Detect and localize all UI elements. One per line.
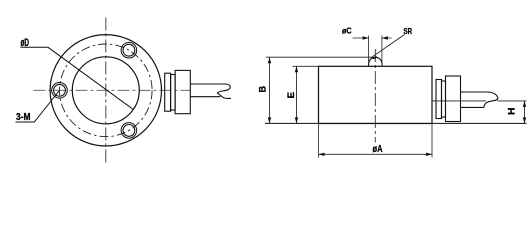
vertical centerline right view <box>374 49 376 143</box>
connector axis extension line right view <box>432 100 527 102</box>
dimension H line <box>524 101 526 124</box>
dimension E extension top <box>293 65 319 67</box>
connector body left view <box>175 70 190 113</box>
cable bottom line right view <box>461 106 484 108</box>
cylinder body rectangle <box>319 66 433 123</box>
cable left view with break <box>190 84 231 98</box>
bolt hole bottom <box>121 123 137 139</box>
bolt hole top-right <box>121 42 137 58</box>
horizontal centerline left view <box>34 89 191 91</box>
vertical centerline left view <box>105 18 107 165</box>
boss dome (SR) <box>369 57 382 66</box>
outer circle flange <box>50 35 161 146</box>
øA extension lines <box>319 124 433 158</box>
SR leader with arrow <box>372 35 405 58</box>
øA dimension line with arrows <box>319 153 433 155</box>
label 3-M leader <box>16 91 60 122</box>
connector ring1 right view <box>436 80 442 119</box>
bottom long line (cylinder bottom + extensions) <box>265 122 527 124</box>
svg-text:3-M: 3-M <box>16 112 31 123</box>
bolt hole left <box>52 83 68 99</box>
svg-text:B: B <box>258 86 268 93</box>
svg-text:E: E <box>286 92 296 99</box>
connector body right view <box>446 76 461 122</box>
connector ring1 left view <box>165 73 171 111</box>
svg-text:øA: øA <box>373 144 383 155</box>
bolt circle (dash-dot) <box>60 44 153 137</box>
svg-text:SR: SR <box>404 26 413 36</box>
svg-text:øC: øC <box>342 26 352 36</box>
connector ring2 right view <box>442 81 446 117</box>
inner circle <box>72 57 139 124</box>
øC extension lines <box>369 36 382 66</box>
cable bottom line left view <box>190 96 221 98</box>
dimension B extension top <box>266 56 372 58</box>
cable right view with curl break <box>461 92 498 107</box>
dimension B line <box>269 57 271 123</box>
connector ring2 left view <box>171 75 176 111</box>
svg-text:øD: øD <box>21 37 30 49</box>
svg-text:H: H <box>507 107 518 115</box>
dimension E line <box>296 66 298 123</box>
øC dimension line with arrows <box>353 37 392 39</box>
